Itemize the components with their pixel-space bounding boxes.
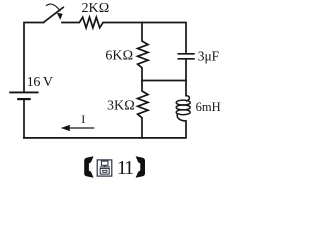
svg-text:2KΩ: 2KΩ (81, 1, 109, 16)
svg-text:6KΩ: 6KΩ (105, 48, 133, 63)
svg-text:11: 11 (117, 157, 133, 179)
svg-text:3KΩ: 3KΩ (107, 99, 135, 114)
svg-text:6mH: 6mH (196, 100, 221, 114)
svg-text:3μF: 3μF (198, 48, 220, 63)
svg-text:16 V: 16 V (27, 75, 53, 90)
svg-text:I: I (81, 112, 85, 126)
